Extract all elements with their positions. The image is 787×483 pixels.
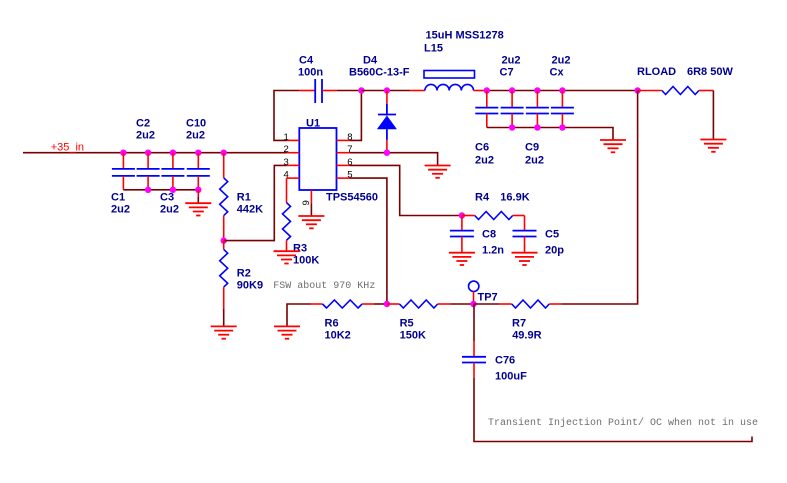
- svg-text:C6: C6: [475, 141, 489, 153]
- svg-text:2: 2: [284, 144, 289, 155]
- label R5 150K: [400, 318, 426, 342]
- resistor R5: [387, 300, 450, 308]
- label R2 90K9: [237, 267, 263, 291]
- capacitor bank leads bottom: [487, 114, 563, 128]
- svg-text:2u2: 2u2: [552, 54, 571, 66]
- svg-text:2u2: 2u2: [160, 203, 179, 215]
- svg-text:442K: 442K: [237, 204, 263, 216]
- junction output rail dots: [484, 87, 641, 93]
- svg-text:2u2: 2u2: [136, 129, 155, 141]
- label C4 100n: [298, 54, 323, 78]
- capacitor C9 plates: [526, 108, 549, 114]
- ground C5: [512, 253, 538, 265]
- label R3 100K: [293, 242, 319, 266]
- svg-text:R5: R5: [400, 318, 414, 330]
- wire L15 to output rail: [474, 90, 487, 92]
- junction pin7/diode: [384, 150, 390, 156]
- svg-text:1: 1: [284, 132, 289, 143]
- resistor R2: [220, 241, 228, 327]
- svg-text:2u2: 2u2: [525, 154, 544, 166]
- wire pin8 to boot node: [349, 91, 361, 141]
- svg-text:TPS54560: TPS54560: [326, 191, 378, 203]
- svg-text:2u2: 2u2: [475, 154, 494, 166]
- label C8 1.2n: [482, 229, 504, 257]
- label R6 10K2: [325, 318, 351, 342]
- svg-text:+35_in: +35_in: [51, 141, 84, 153]
- capacitor input bank leads top: [123, 153, 198, 169]
- ground R2: [211, 326, 237, 338]
- svg-text:2u2: 2u2: [186, 129, 205, 141]
- wire R7 right up to output rail: [561, 91, 637, 305]
- svg-text:2u2: 2u2: [502, 54, 521, 66]
- label R1 442K: [237, 191, 263, 215]
- wire RLOAD to ground: [712, 91, 714, 140]
- svg-text:100n: 100n: [298, 66, 323, 78]
- resistor RLOAD: [638, 87, 714, 95]
- svg-text:C76: C76: [495, 354, 515, 366]
- wire pin9 to ground: [310, 203, 312, 216]
- svg-text:49.9R: 49.9R: [512, 330, 541, 342]
- svg-text:20p: 20p: [545, 245, 564, 257]
- label R4 16.9K: [475, 191, 530, 203]
- wire output rail: [487, 90, 638, 92]
- pin stubs U1 left: [287, 140, 300, 178]
- ground C8: [449, 253, 475, 265]
- label RLOAD 6R8 50W: [637, 66, 733, 78]
- svg-text:C5: C5: [545, 229, 559, 241]
- svg-text:8: 8: [347, 132, 352, 143]
- capacitor C10 plates: [187, 169, 210, 176]
- capacitor C7 plates: [501, 108, 524, 114]
- label L15 15uH MSS1278: [424, 29, 504, 54]
- junction SW node: [384, 87, 390, 93]
- label C5 20p: [545, 229, 564, 257]
- svg-text:R3: R3: [293, 242, 307, 254]
- svg-text:3: 3: [284, 157, 289, 168]
- svg-text:C9: C9: [525, 141, 539, 153]
- pin stubs U1 right: [337, 140, 350, 178]
- ground pin9: [298, 216, 324, 228]
- label C3 2u2: [160, 191, 179, 215]
- svg-text:R6: R6: [325, 318, 339, 330]
- svg-text:C10: C10: [186, 117, 206, 129]
- capacitor C5: [513, 216, 537, 253]
- svg-text:Cx: Cx: [550, 66, 565, 78]
- inductor L15: [424, 71, 475, 91]
- capacitor C1 plates: [112, 169, 135, 176]
- ground RLOAD: [700, 140, 726, 152]
- svg-text:100K: 100K: [293, 254, 319, 266]
- wire input cap bottom rail: [123, 189, 198, 191]
- svg-text:U1: U1: [306, 117, 320, 129]
- svg-text:2u2: 2u2: [111, 203, 130, 215]
- label 2u2 Cx: [550, 54, 571, 78]
- capacitor C4: [300, 79, 337, 103]
- svg-text:1.2n: 1.2n: [482, 245, 504, 257]
- wire C4 to boot node: [337, 90, 361, 92]
- wire +35_in input rail: [23, 152, 287, 154]
- svg-text:R7: R7: [512, 318, 526, 330]
- resistor R1: [220, 153, 228, 241]
- label C6 2u2: [475, 141, 494, 166]
- junction R4/C8 node: [459, 212, 465, 218]
- wire pin5 net down: [349, 178, 387, 304]
- wire C76 to transient injection stub: [474, 378, 752, 442]
- label C76 100uF: [495, 354, 527, 382]
- svg-text:150K: 150K: [400, 330, 426, 342]
- svg-text:Transient Injection Point/ OC: Transient Injection Point/ OC when not i…: [488, 417, 758, 429]
- label C1 2u2: [111, 191, 130, 215]
- svg-text:C1: C1: [111, 191, 125, 203]
- pin stub U1 pin9: [310, 190, 312, 203]
- svg-text:90K9: 90K9: [237, 279, 263, 291]
- svg-text:15uH MSS1278: 15uH MSS1278: [426, 29, 504, 41]
- ground output caps: [600, 140, 626, 152]
- wire to input ground: [197, 190, 199, 197]
- diode D4: [377, 91, 397, 153]
- resistor R6: [311, 300, 375, 308]
- resistor R3: [283, 178, 291, 251]
- resistor R7: [474, 300, 562, 308]
- capacitor input bank leads bottom: [123, 176, 198, 190]
- svg-text:FSW about 970 KHz: FSW about 970 KHz: [273, 280, 375, 292]
- label C9 2u2: [525, 141, 544, 166]
- junction input bottom dots: [145, 187, 202, 193]
- ground R3: [274, 251, 300, 263]
- svg-text:R1: R1: [237, 191, 251, 203]
- junction boot node: [358, 87, 364, 93]
- junction input rail dots: [120, 150, 227, 156]
- junction R1 bottom: [221, 237, 227, 243]
- wire output cap bottom rail: [487, 128, 613, 141]
- junction TP7 node: [470, 301, 476, 307]
- ground R6: [274, 326, 300, 338]
- svg-text:C2: C2: [136, 117, 150, 129]
- wire R6 to pin5 node: [374, 303, 387, 305]
- capacitor C7 bank leads top: [487, 91, 563, 108]
- svg-text:16.9K: 16.9K: [500, 191, 529, 203]
- wire pin6 net to R4: [349, 165, 462, 215]
- ground pin7: [425, 166, 451, 178]
- svg-text:D4: D4: [363, 54, 378, 66]
- capacitor C8: [450, 216, 474, 253]
- svg-text:C3: C3: [160, 191, 174, 203]
- test point TP7: [469, 281, 479, 304]
- label R7 49.9R: [512, 318, 542, 342]
- svg-text:TP7: TP7: [478, 291, 498, 303]
- junction pin5/R6/R5: [384, 301, 390, 307]
- wire R6 left to ground: [287, 304, 311, 326]
- svg-text:RLOAD: RLOAD: [637, 66, 676, 78]
- svg-text:C4: C4: [299, 54, 314, 66]
- wire R1 node to pin3: [224, 165, 287, 240]
- capacitor C2 plates: [137, 169, 160, 176]
- svg-text:R2: R2: [237, 267, 251, 279]
- svg-text:10K2: 10K2: [325, 330, 351, 342]
- wire top rail boot to L15: [361, 90, 410, 92]
- svg-text:L15: L15: [424, 42, 443, 54]
- op-amp U1 TPS54560 body: [299, 128, 336, 190]
- svg-text:B560C-13-F: B560C-13-F: [349, 66, 410, 78]
- svg-text:9: 9: [301, 200, 312, 205]
- svg-text:R4: R4: [475, 191, 490, 203]
- ground input caps: [185, 203, 211, 215]
- junction output bottom dots: [509, 124, 566, 130]
- svg-text:100uF: 100uF: [495, 370, 527, 382]
- label 2u2 C7: [500, 54, 521, 78]
- label C2 2u2: [136, 117, 155, 141]
- label C10 2u2: [186, 117, 206, 141]
- resistor R4: [462, 212, 525, 220]
- label D4 B560C-13-F: [349, 54, 410, 78]
- wire R5 to TP7 node: [450, 303, 473, 305]
- capacitor C6 plates: [475, 108, 498, 114]
- svg-text:6R8 50W: 6R8 50W: [687, 66, 733, 78]
- wire pin7 net: [349, 153, 437, 166]
- svg-text:C8: C8: [482, 229, 496, 241]
- capacitor C3 plates: [161, 169, 184, 176]
- capacitor Cx plates: [551, 108, 574, 114]
- capacitor C76: [462, 304, 486, 378]
- wire boot loop left (pin1 to C4): [274, 91, 300, 141]
- svg-text:C7: C7: [500, 66, 514, 78]
